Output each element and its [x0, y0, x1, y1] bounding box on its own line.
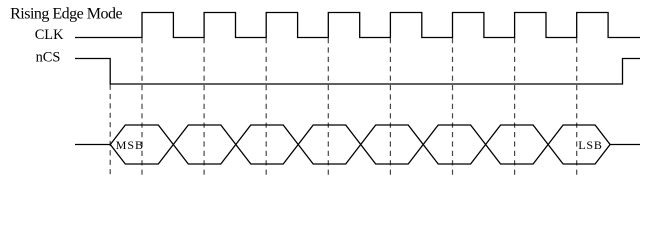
svg-text:LSB: LSB	[578, 138, 602, 152]
svg-text:CLK: CLK	[35, 27, 64, 43]
svg-text:MSB: MSB	[116, 138, 144, 152]
svg-text:Rising Edge Mode: Rising Edge Mode	[10, 5, 122, 22]
svg-text:nCS: nCS	[36, 49, 61, 65]
